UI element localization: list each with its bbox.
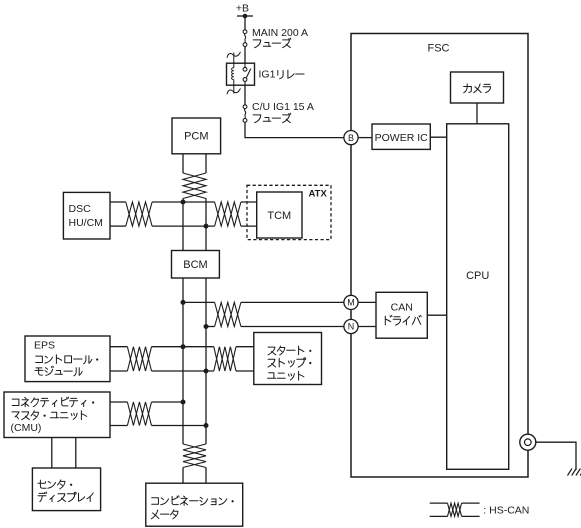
- bus pair twist to BCM: [182, 199, 184, 251]
- bus pair PCM down to twist: [182, 154, 184, 173]
- relay IG1: [227, 63, 255, 85]
- svg-text:: HS-CAN: : HS-CAN: [483, 504, 529, 516]
- combination meter box: [146, 483, 243, 526]
- twisted pair symbol TCM side: [215, 202, 241, 226]
- bus pair BCM down to lower twist: [182, 278, 184, 444]
- svg-text:M: M: [347, 298, 355, 308]
- camera unit: [451, 72, 504, 103]
- svg-text:ATX: ATX: [309, 188, 328, 199]
- POWER IC block: [372, 124, 430, 149]
- wire relay to C/U fuse: [244, 86, 246, 105]
- twisted pair symbol start/stop side: [214, 347, 236, 371]
- junction dots row1: [181, 200, 186, 205]
- start stop unit box: [254, 333, 322, 385]
- CAN driver block: [376, 292, 427, 338]
- CPU block: [447, 124, 509, 470]
- wires CMU to center display: [51, 438, 53, 469]
- wire pair DSC to bus to TCM: [110, 201, 126, 203]
- wire pair CMU to bus: [110, 401, 127, 403]
- svg-text:HU/CM: HU/CM: [69, 217, 103, 229]
- wire O to ground: [536, 442, 576, 470]
- svg-text:B: B: [348, 133, 354, 143]
- svg-text:IG1: IG1: [259, 68, 276, 80]
- wire N to CAN driver: [358, 326, 376, 328]
- legend twisted pair = HS-CAN: [430, 502, 448, 504]
- relay coil wire with cut squiggles: [233, 53, 235, 68]
- wire C/U fuse to terminal B: [245, 122, 345, 137]
- wire +B down to MAIN fuse: [244, 16, 246, 30]
- wire pair EPS to bus to start/stop unit: [110, 346, 127, 348]
- TCM box: [257, 192, 302, 238]
- relay switch contacts: [244, 63, 246, 67]
- junction dots row2: [181, 300, 186, 305]
- junction dots row4: [181, 400, 186, 405]
- FSC unit box: [351, 34, 528, 478]
- svg-text:BCM: BCM: [183, 259, 207, 271]
- svg-text:FSC: FSC: [428, 43, 450, 55]
- wire B to POWER IC: [358, 137, 372, 139]
- svg-text:DSC: DSC: [69, 203, 92, 215]
- bus twisted pair symbol (upper): [183, 173, 206, 199]
- connectivity master unit box: [4, 392, 110, 438]
- wire camera to CPU: [476, 103, 478, 124]
- terminal M: [344, 295, 358, 309]
- terminal N: [344, 319, 358, 333]
- wire M to CAN driver: [358, 301, 376, 303]
- svg-text:(CMU): (CMU): [11, 422, 42, 434]
- svg-text:POWER IC: POWER IC: [375, 132, 429, 144]
- DSC HU/CM box: [63, 192, 110, 239]
- svg-text:CPU: CPU: [466, 270, 489, 282]
- bus twisted pair symbol (lower): [183, 444, 206, 468]
- svg-text:EPS: EPS: [34, 340, 55, 352]
- svg-text:CAN: CAN: [391, 302, 413, 314]
- wire CAN driver to CPU: [427, 314, 446, 316]
- twisted pair symbol CMU: [127, 402, 151, 426]
- svg-text:N: N: [348, 322, 355, 332]
- svg-text:MAIN 200 A: MAIN 200 A: [252, 27, 308, 39]
- wire pair bus to terminals M and N: [183, 301, 215, 303]
- BCM box: [172, 251, 220, 279]
- wire POWER IC to CPU: [430, 136, 446, 138]
- center display box: [32, 468, 100, 511]
- svg-text:C/U IG1 15 A: C/U IG1 15 A: [252, 101, 314, 113]
- bus pair to combination meter: [182, 468, 184, 484]
- ATX dashed group box: [247, 185, 331, 239]
- svg-text:+B: +B: [236, 3, 249, 15]
- twisted pair symbol DSC side: [126, 202, 152, 226]
- PCM box: [172, 118, 221, 154]
- terminal B: [344, 131, 358, 145]
- svg-text:PCM: PCM: [184, 131, 208, 143]
- fuse MAIN 200 A: [243, 30, 247, 34]
- twisted pair symbol EPS side: [127, 347, 151, 371]
- twisted pair symbol M/N: [215, 302, 241, 326]
- ground symbol: [568, 469, 581, 476]
- fuse C/U IG1 15 A: [243, 105, 247, 109]
- EPS control module box: [25, 336, 110, 382]
- terminal O: [520, 434, 536, 450]
- junction dots row3: [181, 344, 186, 349]
- svg-text:TCM: TCM: [267, 210, 291, 222]
- wire MAIN fuse to relay: [244, 47, 246, 64]
- relay coil: [232, 68, 234, 80]
